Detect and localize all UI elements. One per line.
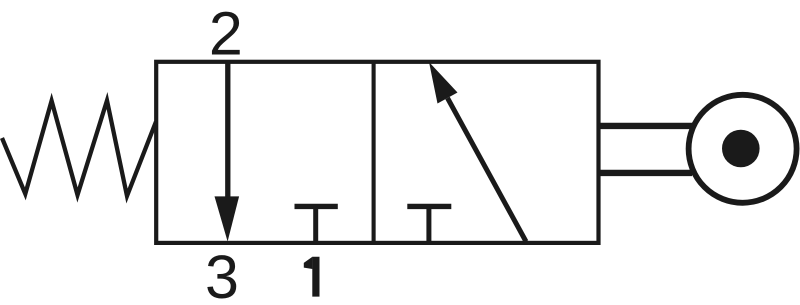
blocked port 1 T-symbol stem (313, 206, 318, 243)
actuated flow path arrow shaft (right chamber) (448, 98, 527, 242)
port 1 label (304, 257, 320, 297)
svg-text:3: 3 (205, 243, 239, 305)
return spring (2, 101, 156, 197)
blocked port T-symbol stem (right chamber) (426, 206, 431, 243)
roller lever upper link (599, 123, 692, 129)
flow path arrowhead at port 3 (215, 196, 240, 241)
flow path arrow shaft 2 to 3 (225, 62, 230, 200)
roller lever lower link (599, 170, 692, 176)
chamber divider (372, 62, 376, 243)
blocked port T-symbol bar (right chamber) (407, 204, 451, 209)
roller axle dot (722, 130, 760, 168)
svg-text:2: 2 (209, 0, 243, 67)
actuated flow path arrowhead (429, 62, 458, 104)
roller outer circle (689, 95, 797, 203)
valve body frame (156, 62, 598, 243)
blocked port 1 T-symbol bar (295, 204, 338, 209)
